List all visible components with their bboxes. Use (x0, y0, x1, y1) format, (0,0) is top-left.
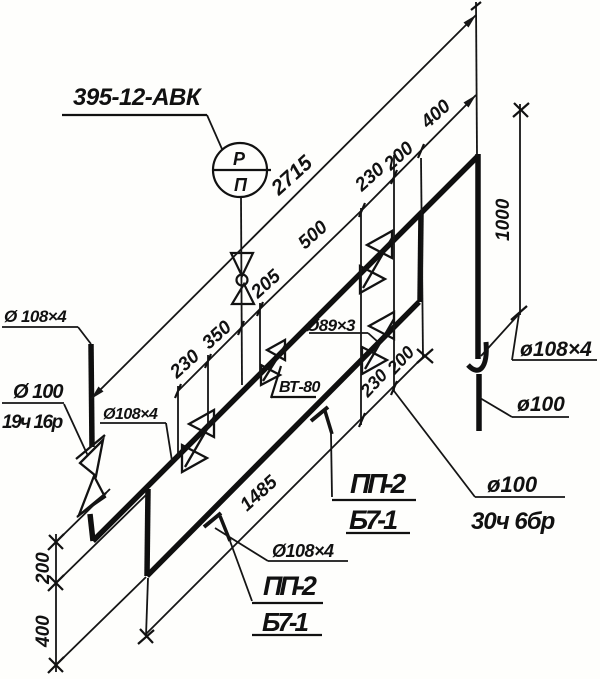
svg-text:П: П (234, 175, 248, 195)
svg-text:ПП-2: ПП-2 (263, 571, 317, 601)
svg-text:Б7-1: Б7-1 (349, 505, 397, 535)
svg-text:19ч 16р: 19ч 16р (2, 412, 63, 433)
svg-text:200: 200 (380, 138, 419, 176)
wire: vertical drop pipe to lower run (147, 489, 148, 576)
dimension line 230/350/205/500/230/200/400 (178, 95, 476, 391)
control valve on instrument line (231, 253, 254, 304)
extension lines from runs to dimension line (177, 386, 179, 458)
left vertical dimension 200/400 (55, 534, 57, 672)
support T1 (204, 513, 230, 541)
arrowhead bottom (91, 387, 104, 400)
valve V3 on upper run (360, 231, 392, 293)
svg-text:ПП-2: ПП-2 (350, 468, 407, 499)
dim text 2715 (266, 151, 317, 200)
svg-text:Ø 100: Ø 100 (13, 381, 63, 403)
svg-text:230: 230 (351, 159, 390, 197)
svg-text:395-12-АВК: 395-12-АВК (73, 84, 203, 111)
instrument line from circle to run (241, 197, 242, 385)
svg-text:500: 500 (294, 217, 332, 254)
svg-text:ВТ-80: ВТ-80 (279, 379, 321, 396)
svg-text:400: 400 (33, 615, 54, 648)
support T2 (311, 407, 332, 434)
valve V4 on lower run (362, 312, 394, 374)
tick top (471, 2, 481, 10)
dimension line 2715 (91, 15, 476, 399)
valve on left riser (zigzag) (76, 435, 106, 517)
svg-text:350: 350 (198, 317, 236, 354)
vertical dimension 1000 (519, 104, 521, 315)
svg-text:ø100: ø100 (517, 393, 565, 416)
svg-text:1000: 1000 (493, 198, 514, 241)
svg-text:230: 230 (166, 346, 205, 384)
wire: main upper pipe run (93, 156, 478, 541)
svg-text:Ø 108×4: Ø 108×4 (4, 307, 67, 326)
wire: right vertical pipe upper (475, 154, 481, 359)
valve V2 on upper run (small) (261, 340, 286, 385)
leader to instrument circle (207, 115, 222, 149)
extension lines bottom left (56, 489, 110, 542)
svg-text:205: 205 (247, 266, 286, 304)
svg-text:200: 200 (33, 552, 54, 585)
svg-text:400: 400 (417, 96, 456, 134)
wire: left riser pipe lower segment (90, 514, 93, 541)
arrowhead top (464, 15, 477, 28)
svg-text:Р: Р (233, 149, 246, 169)
dimension line 1485/230/200 (146, 355, 425, 634)
svg-text:200: 200 (383, 342, 419, 378)
svg-text:2715: 2715 (266, 151, 317, 200)
svg-text:Ø108×4: Ø108×4 (272, 541, 334, 561)
svg-text:ø108×4: ø108×4 (520, 338, 592, 361)
wire: lower pipe run (147, 302, 419, 576)
wire: hook outlet on right pipe (468, 342, 486, 370)
extension below J1 (146, 578, 148, 636)
svg-text:Ø108×4: Ø108×4 (103, 406, 158, 423)
wire: left riser pipe upper segment (91, 344, 92, 447)
dim ticks (175, 144, 424, 398)
wire: right vertical pipe lower (476, 374, 482, 431)
wire: vertical riser between runs (420, 213, 421, 302)
svg-text:ø100: ø100 (487, 472, 538, 497)
svg-text:Б7-1: Б7-1 (262, 607, 309, 637)
instrument circle P/P (212, 143, 271, 197)
svg-text:30ч 6бр: 30ч 6бр (471, 508, 555, 535)
extension line top right (476, 2, 477, 156)
valve V1 on upper run (182, 410, 214, 472)
dim texts (166, 346, 205, 384)
